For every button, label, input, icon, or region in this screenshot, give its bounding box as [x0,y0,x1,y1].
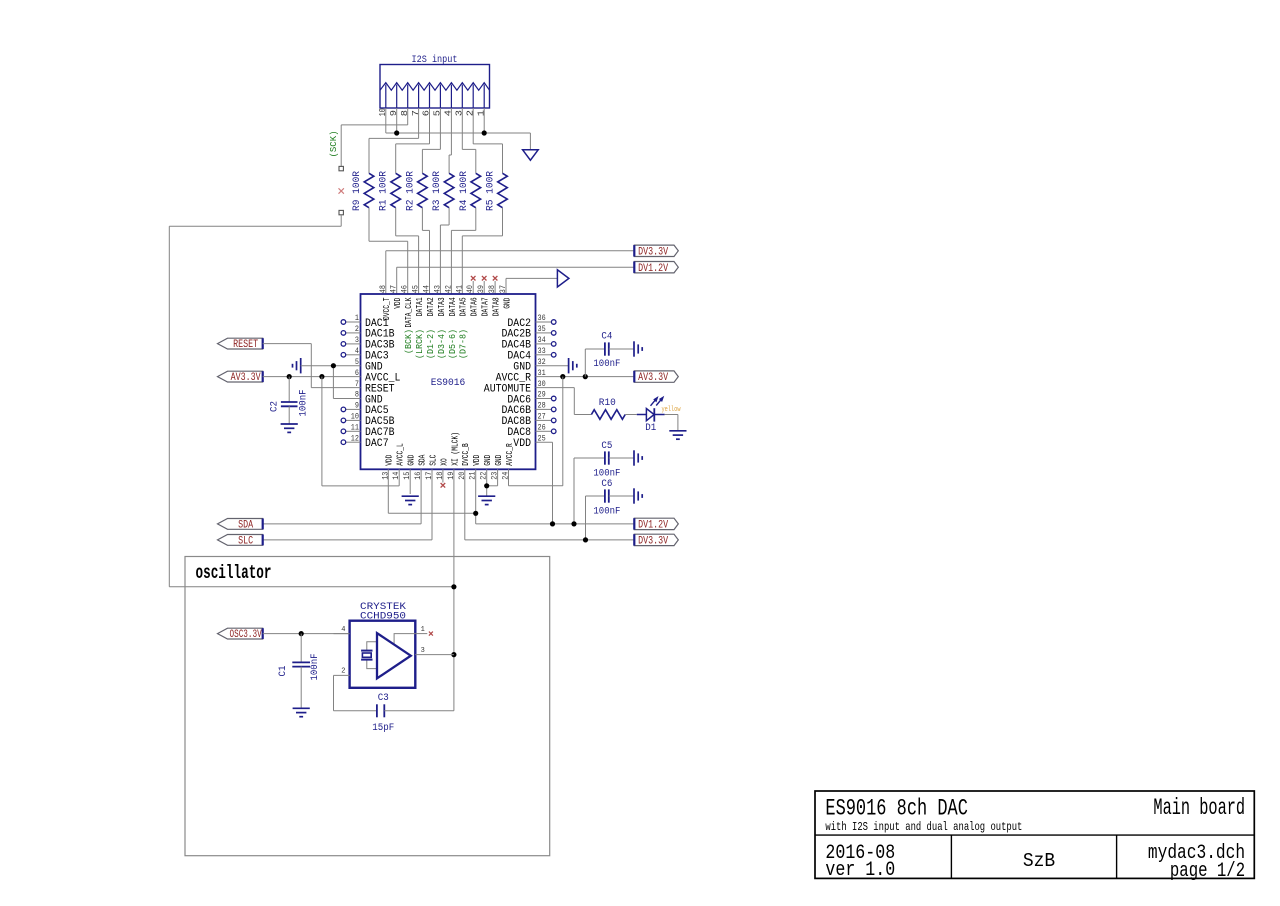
green alt labels (BCK)(LRCK)(D1-2)(D3-4)(D5-6)(D7-8) [404,329,469,359]
svg-text:R2 100R: R2 100R [405,171,416,211]
svg-text:3: 3 [421,647,425,655]
capacitor C3 15pF [334,675,454,734]
svg-text:8: 8 [400,110,410,116]
wire: pin13+pin21 VDD link [388,469,475,524]
svg-text:44: 44 [422,285,432,293]
wire: pin5 to R2 [422,108,440,173]
oscillator section frame [185,557,550,856]
wire: AVCC_L down to pin14 [322,377,399,486]
svg-text:page 1/2: page 1/2 [1170,860,1245,883]
svg-text:15pF: 15pF [372,723,394,734]
junction: pin25 rail tap [550,521,555,526]
svg-text:DATA2: DATA2 [426,297,436,316]
wire: connector GND bus (pins 10,9,1) [386,108,531,150]
wire: pin17 SLC [263,469,432,540]
ground right of C5 [633,450,635,465]
svg-text:R9 100R: R9 100R [352,171,363,211]
svg-text:(BCK): (BCK) [404,329,414,354]
op-amp U1 ES9016 DAC IC body [361,294,536,469]
junction: AVCC_R vert tap [560,374,565,379]
wire: lower terminal to oscillator/XI net [169,215,454,587]
svg-text:SLC: SLC [428,454,438,466]
svg-text:GND: GND [494,455,504,466]
resistor R3 100R [432,171,454,211]
wire: pin20 DVCC_B to DV3.3V rail [465,469,635,540]
svg-text:R10: R10 [599,398,616,409]
svg-text:(D3-4): (D3-4) [437,329,447,359]
svg-text:DATA4: DATA4 [448,297,458,316]
svg-text:D1: D1 [645,423,656,434]
ground right of C6 [633,488,635,503]
wire: pin5 to pin8 GND link [333,366,360,399]
svg-text:(D7-8): (D7-8) [459,329,469,359]
svg-text:VDD: VDD [385,455,395,466]
svg-text:DV3.3V: DV3.3V [638,246,668,258]
wire: pin31 AVCC_R to AV3.3V [536,376,635,378]
IC left NC pin circles (1-4, 9-12) [341,320,360,445]
svg-text:(D5-6): (D5-6) [448,329,458,359]
terminal: SCK lower [339,210,343,214]
svg-text:VDD: VDD [472,455,482,466]
ground below C1 [293,707,310,709]
IC right pin names and numbers [484,313,546,450]
power label DV3.3V (top) [634,245,678,256]
ground below pins22/23 [478,495,495,497]
svg-text:DATA7: DATA7 [481,297,491,316]
svg-text:3: 3 [455,110,465,116]
wire: R1 to pin45 [396,208,419,294]
svg-text:1: 1 [421,626,425,634]
capacitor C6 100nF [586,479,634,540]
svg-text:DVCC_B: DVCC_B [461,443,471,466]
junction: gnd pins [484,483,489,488]
svg-text:C1: C1 [278,666,289,677]
junction: AVCC_L tap [319,374,324,379]
wire: pin2 to R5 [473,108,502,173]
wire: AVCC_R down to pin24 [509,377,563,486]
svg-text:45: 45 [411,285,421,293]
wire: pin16 SDA [263,469,421,524]
IC right NC pin circles (36-33, 29-26) [536,320,557,434]
svg-text:AV3.3V: AV3.3V [638,372,668,384]
svg-text:5: 5 [433,110,443,116]
osc pin 1 (NC) [415,626,433,636]
svg-text:C5: C5 [601,441,612,452]
no-connect pins 40,39,38 [471,276,498,294]
svg-text:SzB: SzB [1023,850,1055,872]
net label DV3.3V (bottom) [634,534,678,545]
svg-text:Main board: Main board [1153,795,1245,821]
wire: R3 to pin43 [440,208,449,294]
svg-text:GND: GND [407,455,417,466]
capacitor C4 100nF [585,331,634,376]
resistor R10 [591,398,625,419]
svg-text:ES9016: ES9016 [431,377,466,389]
svg-text:41: 41 [454,285,464,293]
junction: XI / SCK net [451,584,456,589]
IC top pin numbers 48..37 [378,285,508,293]
svg-text:38: 38 [487,285,497,293]
junction: pin1 gnd [482,130,487,135]
resistor R5 100R [486,171,508,211]
resistor R4 100R [459,171,481,211]
svg-text:RESET: RESET [233,339,258,351]
junction: C6 rail tap [583,537,588,542]
title block frame [815,791,1254,878]
svg-text:SDA: SDA [418,454,428,466]
svg-text:AVCC_L: AVCC_L [396,443,406,466]
svg-text:DATA3: DATA3 [437,297,447,316]
wire: pin6 to R1 [396,108,430,173]
svg-text:C2: C2 [270,401,281,412]
svg-text:47: 47 [389,285,399,293]
junction: C5 rail tap [571,521,576,526]
wire: AV3.3V to pin6 [263,376,361,378]
svg-text:AV3.3V: AV3.3V [231,372,261,384]
svg-text:4: 4 [444,110,454,116]
svg-text:OSC3.3V: OSC3.3V [230,629,262,641]
ground at pin5 (AGND left) [300,358,302,373]
svg-text:R5 100R: R5 100R [486,171,497,211]
svg-text:ES9016 8ch DAC: ES9016 8ch DAC [825,796,968,822]
ground: connector gnd triangle [523,150,539,160]
svg-text:2: 2 [341,668,345,676]
svg-text:DATA1: DATA1 [415,297,425,316]
ground at pin32 [536,365,569,367]
svg-text:R1 100R: R1 100R [379,171,390,211]
svg-text:DVCC_T: DVCC_T [382,297,392,320]
power label DV1.2V (top) [634,262,678,273]
no-connect pin18 XO [441,469,446,487]
svg-text:10: 10 [378,108,388,116]
wire: pin19 XI/MLCK down to oscillator [453,469,455,711]
junction: pin21 vdd [473,511,478,516]
svg-text:oscillator: oscillator [196,562,272,584]
svg-text:SDA: SDA [238,520,253,532]
I2S input connector J1 [380,54,490,108]
net label AV3.3V (left) [218,371,263,382]
connector pin numbers 10..1 [378,108,486,116]
capacitor C5 100nF [574,441,634,524]
wire: pin47 to DV1.2V [397,267,635,294]
svg-text:DV1.2V: DV1.2V [638,263,668,275]
ground below D1 [669,430,686,432]
resistor R9 100R [352,171,374,211]
wire: SCK from pin 8 [341,108,408,166]
wire: R9 to pin46 [369,208,408,294]
svg-text:GND: GND [502,298,512,309]
svg-text:DATA8: DATA8 [492,297,502,316]
svg-text:100nF: 100nF [310,654,321,681]
svg-text:DAC7: DAC7 [365,438,389,450]
junction: C4 tap [583,374,588,379]
svg-text:XO: XO [439,458,449,466]
wire: OSC3.3V to osc pin4 [263,633,350,635]
svg-text:1: 1 [476,110,486,116]
resistor R1 100R [379,171,401,211]
net label AV3.3V (right) [634,371,678,382]
wire: pin48 to DV3.3V [386,251,635,294]
svg-text:with I2S input and dual analog: with I2S input and dual analog output [825,820,1022,834]
svg-text:DATA_CLK: DATA_CLK [404,297,414,327]
wire: R4 to pin42 [451,208,475,294]
ground below pin15 [409,469,411,494]
LED D1 yellow [625,397,681,434]
IC bottom pin numbers 13..24 [380,472,510,480]
junction: XI / osc out [451,652,456,657]
svg-text:(D1-2): (D1-2) [426,329,436,359]
svg-text:48: 48 [378,285,388,293]
svg-text:C3: C3 [378,693,389,704]
wire: pin3 to R4 [462,108,476,173]
wire: pin4 to R3 [449,108,451,173]
capacitor C2 100nF [270,377,310,424]
svg-text:40: 40 [465,285,475,293]
resistor R2 100R [405,171,427,211]
wire: pin7 to R9 [369,108,419,173]
svg-text:XI (MLCK): XI (MLCK) [450,432,460,466]
IC bottom pin names [385,432,515,466]
svg-text:DATA6: DATA6 [470,297,480,316]
net label DV1.2V (bottom) [634,518,678,529]
svg-text:100nF: 100nF [593,469,620,480]
svg-text:39: 39 [476,285,486,293]
wire: R5 to pin41 [462,208,502,294]
ground: net port triangle right [557,270,569,287]
svg-text:DATA5: DATA5 [459,297,469,316]
no-connect X between terminals [339,188,344,193]
svg-text:42: 42 [443,285,453,293]
svg-text:9: 9 [389,110,399,116]
IC top pin names [382,297,512,327]
svg-text:VDD: VDD [393,298,403,309]
svg-text:46: 46 [400,285,410,293]
junction: C2 tap [287,374,292,379]
svg-text:ver 1.0: ver 1.0 [825,859,895,882]
svg-text:(SCK): (SCK) [328,131,339,158]
wire: DV1.2V rail [476,523,635,525]
wire: pin30 AUTOMUTE to R10 [536,388,592,415]
svg-text:C4: C4 [601,331,612,342]
wire: pin25 VDD down to DV1.2V rail [536,442,553,524]
wire: RESET to pin7 [263,344,361,388]
oscillator U2 CRYSTEK CCHD950 [350,602,416,688]
svg-text:2: 2 [465,110,475,116]
svg-text:R4 100R: R4 100R [459,171,470,211]
osc pin 2 [334,668,350,676]
svg-text:(LRCK): (LRCK) [415,329,425,359]
svg-text:100nF: 100nF [593,359,620,370]
terminal: SCK upper [339,166,343,170]
junction: C1 tap [299,631,304,636]
svg-text:yellow: yellow [662,406,682,414]
svg-text:DV1.2V: DV1.2V [638,520,668,532]
svg-text:GND: GND [483,455,493,466]
svg-text:4: 4 [341,626,345,634]
osc pin 3 output [415,647,454,655]
svg-text:37: 37 [498,285,508,293]
svg-text:DV3.3V: DV3.3V [638,536,668,548]
osc pin 4 [334,626,350,634]
net label SLC [218,535,263,546]
svg-text:C6: C6 [601,479,612,490]
wire: R2 to pin44 [422,208,429,294]
svg-text:6: 6 [422,110,432,116]
wire: pin5 GND [301,365,361,367]
net label OSC3.3V [218,628,263,639]
wire: pins22+23 GND [487,469,498,496]
capacitor C1 100nF [278,634,321,708]
junction: pin9 gnd [394,130,399,135]
wire: D1 cathode to ground [665,415,678,431]
svg-text:7: 7 [411,110,421,116]
junction: gnd link [331,363,336,368]
svg-text:100nF: 100nF [299,390,310,417]
svg-text:SLC: SLC [238,536,253,548]
svg-text:R3 100R: R3 100R [432,171,443,211]
net label RESET [218,338,263,349]
svg-text:VDD: VDD [513,438,531,450]
ground right of C4 [633,341,635,356]
IC left pin names and numbers [351,313,401,450]
svg-text:100nF: 100nF [593,507,620,518]
ground below C2 [281,423,298,425]
net label SDA [218,519,263,530]
svg-text:43: 43 [432,285,442,293]
wire: pin37 GND to port [506,278,557,294]
